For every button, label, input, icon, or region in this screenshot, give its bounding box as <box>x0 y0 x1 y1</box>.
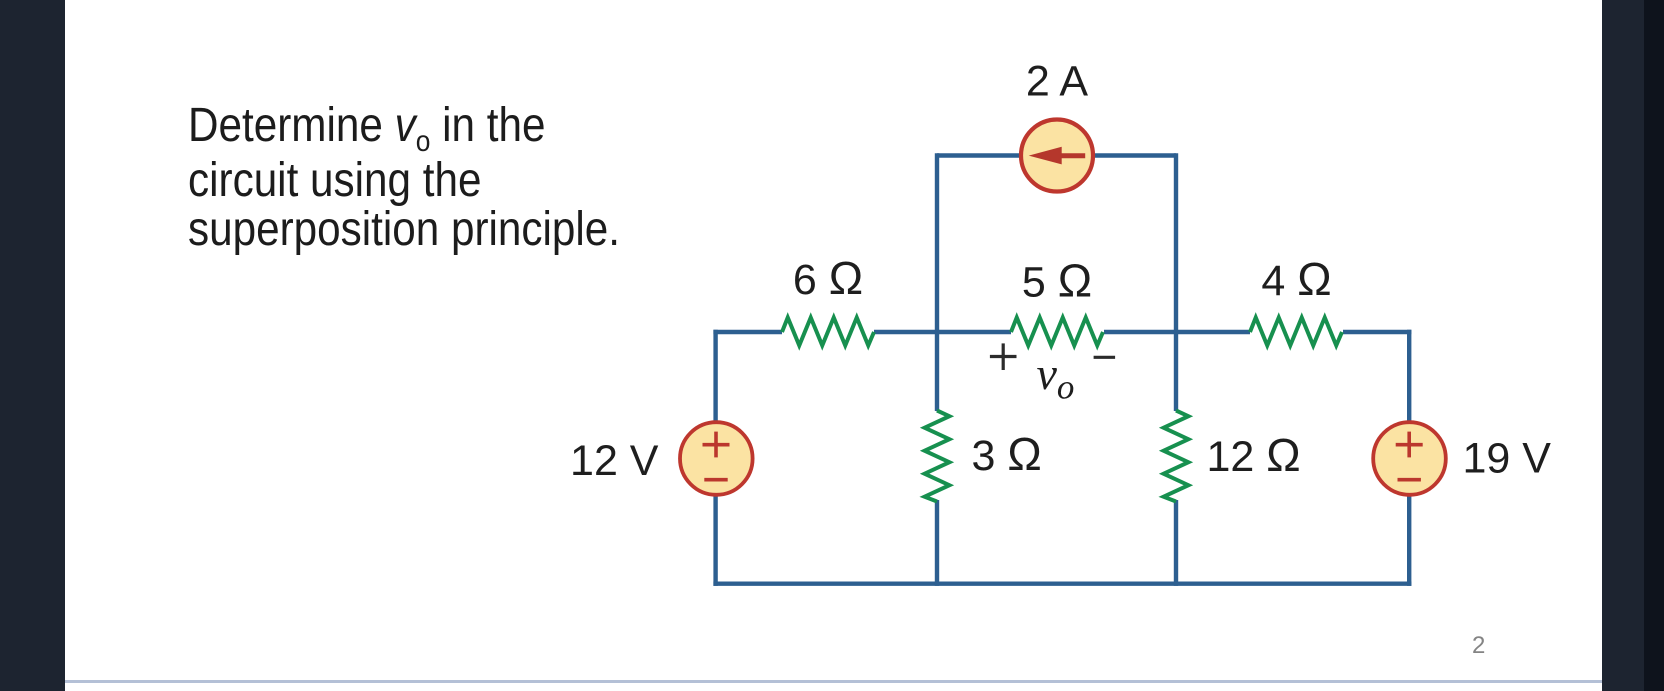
svg-text:3 Ω: 3 Ω <box>972 428 1042 480</box>
svg-text:2 A: 2 A <box>1026 58 1088 106</box>
svg-text:4 Ω: 4 Ω <box>1261 253 1331 305</box>
svg-text:12 V: 12 V <box>570 437 659 485</box>
svg-text:6 Ω: 6 Ω <box>793 252 863 304</box>
svg-text:5 Ω: 5 Ω <box>1022 255 1092 307</box>
svg-text:12 Ω: 12 Ω <box>1207 429 1301 481</box>
svg-text:vo: vo <box>1037 348 1075 407</box>
svg-text:19 V: 19 V <box>1463 435 1552 483</box>
